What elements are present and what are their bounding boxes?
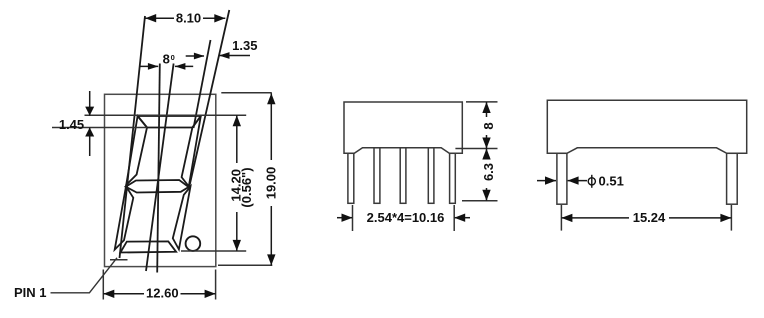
dim 1.45 arrows shafts — [89, 91, 91, 116]
dim 12.60 extension lines — [102, 270, 104, 300]
svg-text:8.10: 8.10 — [176, 11, 201, 26]
svg-text:19.00: 19.00 — [263, 167, 278, 200]
display package outline (front view) — [105, 94, 216, 266]
pin 5 — [450, 153, 456, 203]
arrowheads dim 8.10 — [145, 14, 156, 22]
dim 1.45 extension lines — [85, 114, 247, 116]
dim 0.51 arrow shafts — [537, 180, 556, 182]
svg-text:2.54*4=10.16: 2.54*4=10.16 — [367, 210, 445, 225]
arrowheads dim 6.3 — [482, 149, 490, 160]
arrowheads dim 8 (side view) — [482, 102, 490, 113]
decimal point — [186, 236, 201, 251]
svg-text:15.24: 15.24 — [633, 210, 666, 225]
segment C (bottom-right) — [173, 187, 191, 250]
dim 8.10 line — [145, 17, 174, 19]
segment F (top-left) — [126, 116, 147, 185]
vertical reference line (8 deg) — [157, 64, 160, 273]
slanted reference line (8 deg) — [146, 64, 174, 272]
arrowheads dim 12.60 — [103, 290, 114, 298]
svg-text:0.51: 0.51 — [599, 173, 624, 188]
segment G (middle) — [126, 180, 189, 193]
arrowheads dim 1.45 — [85, 107, 94, 116]
segment A (top) — [138, 116, 201, 128]
arrowheads dim 2.54*4 — [342, 214, 353, 222]
dim 12.60 line — [103, 293, 144, 295]
dim 14.20 line — [236, 115, 238, 163]
dim 14.20 extension lines — [181, 250, 246, 252]
svg-text:0: 0 — [171, 53, 175, 62]
pin1 tick — [110, 259, 128, 261]
dim 2.54 arrow shafts — [337, 217, 352, 219]
pin 2 — [374, 148, 380, 204]
left pin (right view) — [557, 153, 567, 204]
arrowheads dim 1.35 — [219, 52, 230, 59]
arrowheads dim 19.00 — [267, 93, 275, 104]
dim 8deg arrow shafts — [140, 65, 159, 67]
svg-text:1.35: 1.35 — [232, 38, 257, 53]
segment E (bottom-left) — [115, 186, 134, 249]
dim 8 line — [486, 102, 488, 117]
dim 19.00 line — [270, 93, 272, 160]
dim 8 extension lines — [466, 101, 498, 103]
dim 15.24 extension lines — [560, 205, 562, 231]
arrowheads dim 14.20 — [233, 115, 241, 126]
dim 19.00 extension lines — [221, 92, 271, 94]
dim 1.35 arrow shafts — [219, 55, 250, 57]
pin1 leader — [51, 258, 118, 293]
svg-text:8: 8 — [481, 122, 496, 129]
segment B (top-right) — [182, 116, 201, 186]
pin 4 — [428, 148, 434, 204]
pin 1 (side view) — [348, 153, 354, 203]
dim symbol phi — [588, 178, 595, 185]
arrowheads dim 15.24 — [561, 214, 572, 222]
arrowheads dim 0.51 — [545, 176, 556, 184]
svg-text:8: 8 — [163, 51, 170, 66]
extension line right inner (1.35) — [194, 40, 211, 128]
extension line left (8.10) — [120, 16, 146, 258]
dim 2.54 extension lines — [352, 205, 354, 231]
segment D (bottom) — [120, 241, 176, 252]
arrowheads dim 8 deg — [148, 63, 159, 70]
pin 3 — [400, 148, 406, 204]
extension line right outer (8.10 / 1.35) — [189, 10, 229, 187]
dim 15.24 line — [561, 217, 629, 219]
right pin (right view) — [727, 153, 738, 204]
svg-text:(0.56"): (0.56") — [239, 167, 254, 207]
svg-text:6.3: 6.3 — [481, 163, 496, 181]
dim 6.3 line — [486, 149, 488, 160]
side view body (middle) — [344, 102, 462, 153]
side view body (right) — [547, 100, 746, 153]
svg-text:PIN 1: PIN 1 — [14, 285, 47, 300]
svg-text:12.60: 12.60 — [146, 285, 179, 300]
svg-text:1.45: 1.45 — [59, 117, 84, 132]
